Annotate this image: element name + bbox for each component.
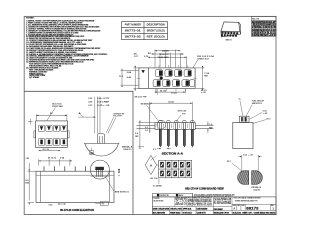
svg-text:DETAIL A: DETAIL A: [122, 145, 133, 148]
svg-text:SCALE 20/1: SCALE 20/1: [123, 148, 131, 151]
recommended board layout view: [145, 155, 224, 190]
svg-text:1.6: 1.6: [145, 130, 148, 132]
svg-text:FLEX CKT MALE CONNECTOR SMT: FLEX CKT MALE CONNECTOR SMT: [234, 197, 262, 200]
svg-text:-A-: -A-: [101, 203, 104, 206]
parts/plating table: [122, 22, 168, 40]
svg-text:X 2.54 PAD: X 2.54 PAD: [153, 184, 163, 187]
svg-text:FRONT VIEW: FRONT VIEW: [52, 106, 63, 108]
svg-text:MATL SEE NOTES: MATL SEE NOTES: [153, 212, 166, 215]
isometric connector pictorial view: [221, 22, 241, 42]
svg-text:D REVISED DIMS SECT A-A JS 1/5: D REVISED DIMS SECT A-A JS 1/5: [252, 34, 276, 37]
svg-text:10X 1.02: 10X 1.02: [150, 178, 157, 180]
svg-text:A: A: [233, 207, 235, 211]
svg-text:DO NOT SCALE: DO NOT SCALE: [183, 212, 192, 215]
svg-text:3X 7.62: 3X 7.62: [43, 149, 49, 151]
svg-text:88173: 88173: [226, 39, 233, 41]
svg-text:CAGE 00779: CAGE 00779: [197, 212, 207, 215]
svg-text:0.64 +-.03 TYP: 0.64 +-.03 TYP: [97, 97, 110, 100]
svg-text:882-173-04 CONN BOARD VIEW: 882-173-04 CONN BOARD VIEW: [185, 187, 224, 191]
svg-text:B: B: [90, 151, 93, 155]
svg-text:SECTION A-A: SECTION A-A: [162, 152, 184, 156]
svg-text:DWG: DWG: [242, 205, 245, 207]
svg-text:DETAIL B: DETAIL B: [252, 186, 262, 189]
svg-text:0.76: 0.76: [144, 56, 148, 58]
svg-text:A: A: [150, 163, 153, 167]
svg-text:8X 0.51 TYP: 8X 0.51 TYP: [135, 97, 148, 99]
svg-text:SEE NOTE 13: SEE NOTE 13: [252, 103, 262, 105]
elevation view: [25, 157, 128, 213]
svg-text:CODE 55322 NO 88173: CODE 55322 NO 88173: [254, 213, 276, 215]
title block: [152, 193, 276, 214]
svg-text:W/THRU RETENTION LEADS FIXT: W/THRU RETENTION LEADS FIXT: [235, 200, 258, 203]
revision history table: [251, 16, 276, 37]
svg-text:0.3: 0.3: [153, 149, 156, 151]
svg-text:HIGHLAND 5 POS: HIGHLAND 5 POS: [214, 212, 230, 215]
svg-text:FCI / BERG ELECTRONICS: FCI / BERG ELECTRONICS: [188, 198, 212, 200]
svg-text:3.2: 3.2: [145, 127, 148, 129]
top view of connector with dimensions: [119, 50, 215, 99]
svg-text:UNLESS NOTED: UNLESS NOTED: [153, 200, 164, 202]
svg-text:R 0.3 TYP: R 0.3 TYP: [113, 116, 122, 118]
svg-text:4X 10.16: 4X 10.16: [48, 157, 56, 160]
svg-text:+-.05: +-.05: [263, 113, 268, 115]
zone divider line: [24, 91, 133, 214]
section A-A view: [135, 102, 213, 161]
svg-text:DESCRIPTION: DESCRIPTION: [147, 24, 165, 27]
svg-text:0.51 REF: 0.51 REF: [97, 102, 110, 104]
detail A (contact tip detail): [78, 97, 133, 156]
svg-text:20.32 TYP: 20.32 TYP: [160, 54, 170, 56]
svg-text:+-.05: +-.05: [248, 154, 252, 156]
svg-text:PROD FAMILY: PROD FAMILY: [214, 208, 224, 211]
svg-text:86773-01: 86773-01: [125, 30, 142, 33]
svg-text:CHECK R.S. 01/08: CHECK R.S. 01/08: [170, 209, 181, 211]
drawing border frame: [24, 16, 276, 214]
svg-text:REF. (GOLD): REF. (GOLD): [147, 36, 165, 39]
svg-text:2X C: 2X C: [227, 161, 232, 163]
svg-text:QC STAMP: QC STAMP: [29, 76, 40, 79]
svg-text:ISO 9001 REGISTERED: ISO 9001 REGISTERED: [214, 203, 231, 205]
svg-text:SHEET 1 OF 1: SHEET 1 OF 1: [242, 213, 253, 215]
svg-text:4X 7.62: 4X 7.62: [160, 90, 167, 93]
svg-text:0.30: 0.30: [263, 111, 267, 113]
svg-text:0.38: 0.38: [88, 102, 92, 104]
svg-text:0.13: 0.13: [88, 105, 92, 107]
notes text block: [26, 17, 108, 79]
svg-text:0.25: 0.25: [88, 98, 92, 100]
svg-text:1.02: 1.02: [243, 154, 247, 156]
svg-text:FINISH TABLE: FINISH TABLE: [170, 212, 181, 215]
svg-text:PART NUMBER: PART NUMBER: [125, 24, 141, 27]
svg-text:86-173-20 CONN ELEVATION: 86-173-20 CONN ELEVATION: [60, 208, 94, 212]
svg-text:0.25: 0.25: [49, 204, 53, 206]
svg-text:SCALE 10:1: SCALE 10:1: [233, 212, 242, 215]
svg-text:BRIGHT (GOLD): BRIGHT (GOLD): [147, 30, 165, 33]
svg-text:NOTES:: NOTES:: [26, 17, 34, 19]
svg-text:SEE NOTE 21: SEE NOTE 21: [115, 191, 129, 193]
svg-text:25.40: 25.40: [162, 50, 170, 53]
svg-text:30.48 MAX: 30.48 MAX: [158, 56, 170, 59]
svg-text:0.25 +-.05: 0.25 +-.05: [97, 105, 109, 107]
front view of connector: [28, 104, 69, 152]
svg-text:DRAWN J. KELLER 01/05/98: DRAWN J. KELLER 01/05/98: [153, 208, 169, 211]
svg-text:1.60: 1.60: [26, 158, 30, 160]
svg-text:8X R 0.25: 8X R 0.25: [178, 111, 187, 113]
detail B (hatched plated hole section): [227, 154, 268, 191]
svg-text:1.6: 1.6: [209, 124, 212, 126]
svg-text:TOLERS: TOLERS: [153, 198, 160, 200]
side view with flex circuit entering: [233, 99, 272, 149]
svg-text:APPR D.W.: APPR D.W.: [183, 208, 192, 211]
svg-text:DATE 01/15/98: DATE 01/15/98: [197, 207, 208, 210]
svg-text:86773-02: 86773-02: [125, 36, 142, 39]
svg-text:INTERCONNECT SYSTEMS DIV: INTERCONNECT SYSTEMS DIV: [188, 199, 213, 201]
svg-text:CONTACT SLOT: CONTACT SLOT: [197, 57, 210, 60]
svg-text:88173: 88173: [246, 206, 258, 210]
